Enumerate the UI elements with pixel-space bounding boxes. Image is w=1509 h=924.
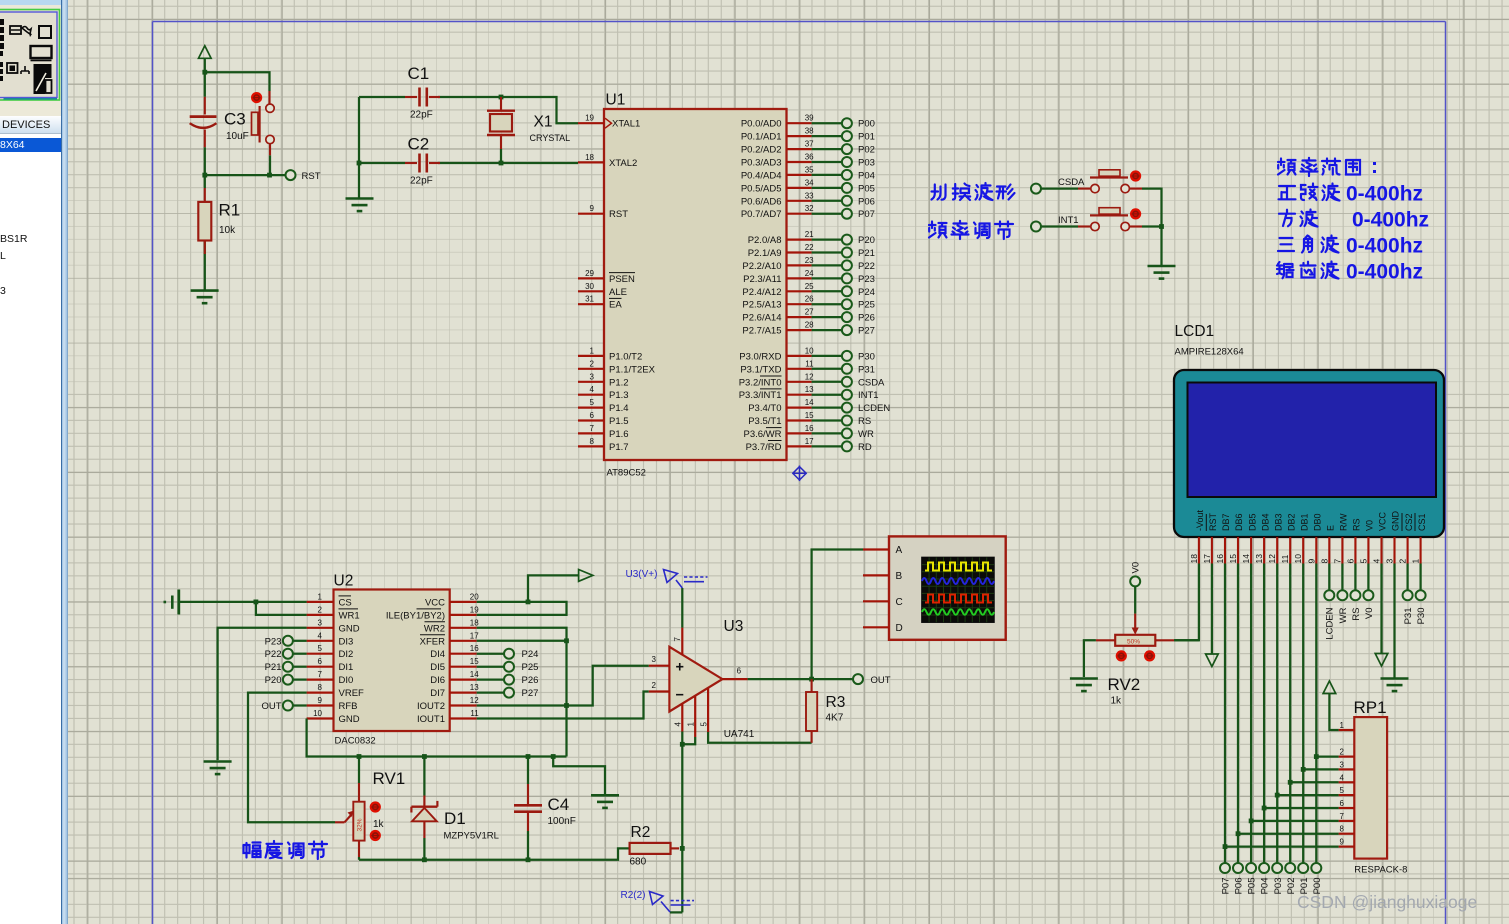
svg-text:8: 8 bbox=[590, 437, 595, 446]
U1 AT89C52 body bbox=[604, 109, 787, 460]
svg-text:28: 28 bbox=[805, 321, 814, 330]
RP1 pin stubs bbox=[1339, 730, 1355, 847]
svg-text:6: 6 bbox=[590, 411, 595, 420]
svg-text:17: 17 bbox=[1202, 554, 1212, 564]
capacitor C3 bbox=[190, 97, 217, 147]
wire RV2 right joins LCD pin18 bbox=[1174, 639, 1199, 641]
svg-text:1: 1 bbox=[1340, 721, 1345, 730]
svg-text:9: 9 bbox=[318, 696, 323, 705]
svg-text:P2.4/A12: P2.4/A12 bbox=[742, 287, 781, 298]
svg-text:DB6: DB6 bbox=[1234, 513, 1244, 531]
potentiometer RV2 bbox=[1096, 614, 1174, 641]
svg-text:P3.0/RXD: P3.0/RXD bbox=[739, 351, 781, 362]
svg-text:GND: GND bbox=[1391, 511, 1401, 532]
svg-text:39: 39 bbox=[805, 114, 814, 123]
svg-text:RESPACK-8: RESPACK-8 bbox=[1354, 865, 1407, 876]
svg-text:12: 12 bbox=[805, 372, 814, 381]
svg-text:100nF: 100nF bbox=[548, 816, 576, 827]
svg-text:24: 24 bbox=[805, 269, 814, 278]
svg-text:DB2: DB2 bbox=[1286, 513, 1296, 531]
U1 right wires to terminals bbox=[812, 123, 842, 446]
svg-text:2: 2 bbox=[1340, 748, 1345, 757]
svg-text:14: 14 bbox=[470, 670, 479, 679]
svg-text:E: E bbox=[1326, 525, 1336, 531]
svg-text:30: 30 bbox=[585, 282, 594, 291]
svg-text:P3.6/WR: P3.6/WR bbox=[743, 429, 781, 440]
svg-text:P23: P23 bbox=[265, 636, 282, 647]
svg-text:C: C bbox=[896, 597, 903, 608]
waveform blue sine bbox=[922, 578, 994, 584]
svg-text:6: 6 bbox=[1340, 799, 1345, 808]
svg-text:17: 17 bbox=[805, 437, 814, 446]
wire RV2 to ground bbox=[1084, 640, 1096, 677]
svg-text:RST: RST bbox=[1208, 512, 1218, 531]
svg-text:P3.5/T1: P3.5/T1 bbox=[748, 416, 781, 427]
output wire to OUT bbox=[748, 678, 853, 680]
svg-text:8: 8 bbox=[318, 683, 323, 692]
svg-text:P01: P01 bbox=[858, 132, 875, 143]
svg-text:15: 15 bbox=[1228, 554, 1238, 564]
svg-text:D: D bbox=[896, 623, 903, 634]
svg-text:P26: P26 bbox=[858, 313, 875, 324]
svg-text:1: 1 bbox=[1411, 559, 1421, 564]
svg-text:4: 4 bbox=[318, 631, 323, 640]
svg-text:U3(V+): U3(V+) bbox=[626, 569, 658, 580]
power symbol (battery bar) bbox=[164, 590, 179, 615]
svg-text:P27: P27 bbox=[858, 326, 875, 337]
svg-text:DB1: DB1 bbox=[1299, 513, 1309, 531]
origin marker bbox=[792, 466, 806, 482]
svg-text:P0.2/AD2: P0.2/AD2 bbox=[741, 145, 782, 156]
svg-text:P2.1/A9: P2.1/A9 bbox=[748, 248, 782, 259]
svg-text:22pF: 22pF bbox=[410, 176, 433, 187]
svg-text:R3: R3 bbox=[826, 694, 846, 711]
svg-text:16: 16 bbox=[805, 424, 814, 433]
svg-text:P20: P20 bbox=[265, 675, 282, 686]
svg-text:P04: P04 bbox=[858, 170, 875, 181]
svg-text:P31: P31 bbox=[858, 364, 875, 375]
svg-text:VCC: VCC bbox=[425, 597, 445, 608]
svg-text:DI1: DI1 bbox=[339, 662, 354, 673]
wire VREF to RV1 wiper bbox=[248, 693, 335, 823]
svg-text:V0: V0 bbox=[1365, 520, 1375, 531]
svg-text:WR: WR bbox=[1338, 607, 1349, 623]
svg-text:DI6: DI6 bbox=[430, 675, 445, 686]
svg-text:7: 7 bbox=[1340, 812, 1345, 821]
blue label switch-waveform bbox=[932, 183, 1015, 200]
svg-text:P2.7/A15: P2.7/A15 bbox=[742, 326, 781, 337]
svg-text:C2: C2 bbox=[408, 135, 430, 154]
svg-text:0-400hz: 0-400hz bbox=[1352, 209, 1429, 232]
svg-text:27: 27 bbox=[805, 308, 814, 317]
svg-text:DI2: DI2 bbox=[339, 649, 354, 660]
svg-text:15: 15 bbox=[805, 411, 814, 420]
ground (reset) bbox=[191, 291, 219, 304]
wire WR2 pin18 bbox=[477, 628, 567, 641]
svg-text:P04: P04 bbox=[1260, 878, 1271, 895]
U1 XTAL1 clock chevron bbox=[605, 118, 612, 128]
node junctions bbox=[202, 70, 207, 75]
svg-text:12: 12 bbox=[470, 696, 479, 705]
svg-text:3: 3 bbox=[1340, 760, 1345, 769]
svg-text:P22: P22 bbox=[265, 649, 282, 660]
svg-text:INT1: INT1 bbox=[858, 390, 879, 401]
terminals LCDEN WR RS V0 P31 P30 bbox=[1324, 590, 1334, 600]
svg-text:32: 32 bbox=[805, 204, 814, 213]
svg-text:13: 13 bbox=[1254, 554, 1264, 564]
svg-text:GND: GND bbox=[339, 714, 360, 725]
svg-text:50%: 50% bbox=[1127, 638, 1140, 645]
ground (U2 pin3) bbox=[204, 762, 232, 775]
svg-text:DB5: DB5 bbox=[1247, 513, 1257, 531]
svg-text:36: 36 bbox=[805, 153, 814, 162]
svg-text:XFER: XFER bbox=[420, 636, 445, 647]
svg-text:DI0: DI0 bbox=[339, 675, 354, 686]
svg-text:13: 13 bbox=[805, 385, 814, 394]
svg-text:10: 10 bbox=[313, 709, 322, 718]
svg-text:V0: V0 bbox=[1364, 608, 1375, 620]
svg-text:U3: U3 bbox=[724, 618, 744, 635]
U1 left pin stubs bbox=[578, 123, 604, 446]
wire buttons to ground bbox=[1042, 189, 1162, 266]
wire opamp out to scope A bbox=[812, 550, 863, 680]
svg-text:WR2: WR2 bbox=[424, 623, 445, 634]
svg-text:P3.3/INT1: P3.3/INT1 bbox=[739, 390, 782, 401]
probe U3(V+) wire bbox=[681, 588, 683, 628]
svg-text:12: 12 bbox=[1267, 554, 1277, 564]
svg-text:LCDEN: LCDEN bbox=[1325, 607, 1336, 639]
terminal RST bbox=[286, 170, 296, 180]
svg-text:RP1: RP1 bbox=[1354, 698, 1387, 717]
svg-text:9: 9 bbox=[1306, 559, 1316, 564]
svg-text:DI5: DI5 bbox=[430, 662, 445, 673]
crystal circuit wires bbox=[359, 97, 578, 198]
opamp vertical net pins 4/1/5 bbox=[670, 732, 812, 913]
svg-text:P1.6: P1.6 bbox=[609, 429, 629, 440]
svg-text:R2(2): R2(2) bbox=[621, 890, 646, 901]
waveform green sine bbox=[922, 609, 994, 615]
zener diode D1 bbox=[423, 757, 425, 860]
svg-text:35: 35 bbox=[805, 165, 814, 174]
ground (crystal) bbox=[346, 199, 374, 212]
crystal X1 bbox=[487, 97, 515, 149]
svg-text:C3: C3 bbox=[224, 110, 246, 129]
svg-text:26: 26 bbox=[805, 295, 814, 304]
U2 right pin names bbox=[386, 597, 445, 725]
junction dots data bus bbox=[1314, 754, 1319, 759]
capacitor C1 bbox=[405, 88, 440, 107]
svg-text:WR: WR bbox=[858, 429, 874, 440]
svg-text:P27: P27 bbox=[522, 688, 539, 699]
svg-text:VCC: VCC bbox=[1378, 511, 1388, 531]
terminal CSDA button net bbox=[1031, 184, 1041, 194]
svg-text:15: 15 bbox=[470, 657, 479, 666]
svg-text:9: 9 bbox=[1340, 838, 1345, 847]
wire GND pin3 bbox=[218, 628, 307, 760]
svg-text:33: 33 bbox=[805, 191, 814, 200]
capacitor C2 bbox=[405, 154, 440, 173]
svg-text:RV1: RV1 bbox=[373, 769, 406, 788]
svg-text:11: 11 bbox=[1280, 554, 1290, 563]
svg-text:C1: C1 bbox=[408, 64, 430, 83]
svg-text:P0.5/AD5: P0.5/AD5 bbox=[741, 183, 782, 194]
svg-text:10: 10 bbox=[805, 346, 814, 355]
svg-text:4: 4 bbox=[590, 385, 595, 394]
svg-text:10: 10 bbox=[1293, 554, 1303, 564]
svg-text:14: 14 bbox=[805, 398, 814, 407]
svg-text:14: 14 bbox=[1241, 554, 1251, 564]
svg-text:P1.5: P1.5 bbox=[609, 416, 629, 427]
svg-text:38: 38 bbox=[805, 127, 814, 136]
svg-text:25: 25 bbox=[805, 282, 814, 291]
svg-text:VREF: VREF bbox=[339, 688, 365, 699]
svg-text:P24: P24 bbox=[858, 287, 875, 298]
svg-text:P0.4/AD4: P0.4/AD4 bbox=[741, 170, 782, 181]
svg-text:9: 9 bbox=[590, 204, 595, 213]
svg-text:7: 7 bbox=[590, 424, 595, 433]
svg-text:-Vout: -Vout bbox=[1195, 509, 1205, 531]
svg-text:4: 4 bbox=[1372, 559, 1382, 564]
svg-text:0-400hz: 0-400hz bbox=[1346, 183, 1423, 206]
svg-text:P1.0/T2: P1.0/T2 bbox=[609, 351, 642, 362]
svg-text:P25: P25 bbox=[858, 300, 875, 311]
svg-text:22: 22 bbox=[805, 243, 814, 252]
ground (rail) bbox=[591, 795, 619, 808]
svg-text:DB0: DB0 bbox=[1313, 513, 1323, 531]
svg-text:RFB: RFB bbox=[339, 701, 358, 712]
svg-text:17: 17 bbox=[470, 631, 479, 640]
svg-text:6: 6 bbox=[737, 667, 742, 676]
LCD pin numbers bbox=[1189, 554, 1421, 564]
svg-text:CS2: CS2 bbox=[1404, 513, 1414, 531]
svg-text:WR1: WR1 bbox=[339, 610, 360, 621]
svg-text:P3.1/TXD: P3.1/TXD bbox=[740, 364, 781, 375]
svg-text:6: 6 bbox=[318, 657, 323, 666]
svg-text:ALE: ALE bbox=[609, 287, 627, 298]
svg-text:P22: P22 bbox=[858, 261, 875, 272]
svg-text:5: 5 bbox=[318, 644, 323, 653]
svg-text:D1: D1 bbox=[444, 809, 466, 828]
svg-text:1: 1 bbox=[590, 346, 595, 355]
power arrow down (VCC) bbox=[1375, 654, 1388, 667]
svg-text:P07: P07 bbox=[858, 209, 875, 220]
svg-text:P1.3: P1.3 bbox=[609, 390, 629, 401]
svg-text:DI7: DI7 bbox=[430, 688, 445, 699]
svg-text:XTAL1: XTAL1 bbox=[612, 119, 640, 130]
RP1 pin wires to LCD data bus bbox=[1225, 757, 1339, 847]
svg-text:P02: P02 bbox=[1286, 878, 1297, 895]
svg-text:U2: U2 bbox=[334, 573, 354, 590]
svg-text:5: 5 bbox=[590, 398, 595, 407]
svg-text:OUT: OUT bbox=[871, 675, 891, 686]
svg-text:P06: P06 bbox=[1234, 878, 1245, 895]
svg-text:P20: P20 bbox=[858, 235, 875, 246]
svg-text:RS: RS bbox=[858, 416, 871, 427]
svg-text:CS: CS bbox=[339, 597, 352, 608]
svg-text:AMPIRE128X64: AMPIRE128X64 bbox=[1175, 347, 1244, 358]
ground (buttons) bbox=[1148, 266, 1176, 279]
U2 right pin stubs bbox=[450, 602, 477, 719]
svg-text:PSEN: PSEN bbox=[609, 274, 635, 285]
svg-text:18: 18 bbox=[470, 618, 479, 627]
overview window bbox=[0, 10, 60, 101]
svg-text:P0.3/AD3: P0.3/AD3 bbox=[741, 158, 782, 169]
svg-text:7: 7 bbox=[318, 670, 323, 679]
button (reset) bbox=[260, 91, 270, 155]
terminal INT1 button net bbox=[1031, 222, 1041, 232]
svg-text:0-400hz: 0-400hz bbox=[1346, 261, 1423, 284]
svg-text:XTAL2: XTAL2 bbox=[609, 158, 637, 169]
wire IOUT2 pin12 to opamp + bbox=[477, 666, 649, 706]
svg-text:P0.1/AD1: P0.1/AD1 bbox=[741, 132, 782, 143]
ground (LCD GND pin) bbox=[1381, 679, 1409, 692]
svg-text:P05: P05 bbox=[858, 183, 875, 194]
svg-text:LCD1: LCD1 bbox=[1175, 323, 1215, 340]
potentiometer RV1 bbox=[358, 757, 360, 860]
overview toolbar icons bbox=[0, 19, 52, 94]
svg-text:GND: GND bbox=[339, 623, 360, 634]
U1 right terminals P00-P07 P20-P27 P30-RD bbox=[842, 118, 852, 451]
LCD wires bbox=[1174, 564, 1421, 863]
svg-text:P24: P24 bbox=[522, 649, 539, 660]
svg-text:21: 21 bbox=[805, 230, 814, 239]
svg-text:3: 3 bbox=[590, 372, 595, 381]
svg-text:2: 2 bbox=[652, 681, 657, 690]
svg-text:4: 4 bbox=[1340, 773, 1345, 782]
U1 right pin numbers bbox=[805, 114, 814, 446]
svg-text:32%: 32% bbox=[357, 818, 364, 831]
svg-text:ILE(BY1/BY2): ILE(BY1/BY2) bbox=[386, 610, 445, 621]
svg-text:23: 23 bbox=[805, 256, 814, 265]
U1 right terminal labels bbox=[858, 119, 890, 453]
waveform red square bbox=[925, 595, 992, 603]
svg-text:P05: P05 bbox=[1247, 878, 1258, 895]
svg-text:EA: EA bbox=[609, 300, 622, 311]
svg-text:3: 3 bbox=[652, 655, 657, 664]
U2 left pin stubs bbox=[307, 602, 334, 719]
power arrow VCC (reset) bbox=[199, 46, 212, 59]
wire CS/WR1 tie bbox=[180, 602, 307, 615]
svg-text:U1: U1 bbox=[606, 92, 626, 109]
svg-text:P02: P02 bbox=[858, 145, 875, 156]
svg-text:P3.7/RD: P3.7/RD bbox=[746, 442, 782, 453]
blue label amplitude-adjust bbox=[244, 841, 328, 859]
svg-text:CSDA: CSDA bbox=[858, 377, 885, 388]
U1 right internal names bbox=[739, 119, 782, 453]
svg-text:B: B bbox=[896, 571, 903, 582]
svg-text:P2.2/A10: P2.2/A10 bbox=[742, 261, 781, 272]
svg-text:R/W: R/W bbox=[1339, 513, 1349, 531]
svg-text:29: 29 bbox=[585, 269, 594, 278]
svg-text:IOUT2: IOUT2 bbox=[417, 701, 445, 712]
svg-text:CSDA: CSDA bbox=[1058, 177, 1085, 188]
blue freq range text bbox=[1277, 158, 1429, 284]
svg-text:DI3: DI3 bbox=[339, 636, 354, 647]
U1 left pin numbers bbox=[585, 114, 594, 446]
blue label freq-adjust bbox=[929, 221, 1013, 239]
svg-text:11: 11 bbox=[805, 359, 814, 368]
wire VCC pin20 to power arrow bbox=[477, 575, 579, 602]
svg-text:16: 16 bbox=[1215, 554, 1225, 564]
svg-text:RST: RST bbox=[609, 209, 628, 220]
wire GND pin10 to rail bbox=[307, 719, 567, 757]
resistor R3 bbox=[811, 679, 813, 692]
svg-text:4: 4 bbox=[674, 722, 683, 727]
svg-text:1k: 1k bbox=[1111, 696, 1123, 707]
svg-text:7: 7 bbox=[1332, 559, 1342, 564]
svg-text:RD: RD bbox=[858, 442, 872, 453]
svg-text:P1.7: P1.7 bbox=[609, 442, 629, 453]
U2 pin numbers bbox=[313, 592, 322, 718]
power arrow up (RP1) bbox=[1323, 681, 1336, 694]
svg-text:P0.0/AD0: P0.0/AD0 bbox=[741, 119, 782, 130]
svg-text:DB7: DB7 bbox=[1221, 513, 1231, 531]
svg-text:+: + bbox=[676, 660, 684, 676]
svg-text:34: 34 bbox=[805, 178, 814, 187]
svg-text:P21: P21 bbox=[265, 662, 282, 673]
terminal OUT (RFB) bbox=[293, 704, 307, 706]
svg-text:P2.3/A11: P2.3/A11 bbox=[743, 274, 781, 285]
svg-text:A: A bbox=[896, 545, 903, 556]
svg-text:P1.1/T2EX: P1.1/T2EX bbox=[609, 364, 656, 375]
svg-text:P25: P25 bbox=[522, 662, 539, 673]
svg-text:MZPY5V1RL: MZPY5V1RL bbox=[444, 831, 499, 842]
U1 left pin names bbox=[609, 119, 656, 453]
svg-text:5: 5 bbox=[699, 722, 708, 727]
svg-text:C4: C4 bbox=[548, 795, 570, 814]
svg-text:2: 2 bbox=[590, 359, 595, 368]
svg-text:P2.0/A8: P2.0/A8 bbox=[748, 235, 782, 246]
svg-text:1: 1 bbox=[686, 722, 695, 727]
svg-text:18: 18 bbox=[585, 153, 594, 162]
svg-text:20: 20 bbox=[470, 592, 479, 601]
svg-text:7: 7 bbox=[673, 637, 682, 642]
svg-text:P06: P06 bbox=[858, 196, 875, 207]
LCD pin stubs bbox=[1199, 537, 1421, 564]
wire IOUT1 pin11 to opamp - bbox=[477, 692, 649, 719]
svg-text:RV2: RV2 bbox=[1108, 675, 1141, 694]
svg-text:18: 18 bbox=[1189, 554, 1199, 564]
svg-text:2: 2 bbox=[1398, 559, 1408, 564]
wire V0 terminal to RV2 wiper bbox=[1134, 587, 1136, 614]
svg-text:P0.7/AD7: P0.7/AD7 bbox=[741, 209, 782, 220]
terminals P07-P00 bbox=[1220, 863, 1230, 873]
svg-text:AT89C52: AT89C52 bbox=[607, 468, 646, 479]
svg-text:LCDEN: LCDEN bbox=[858, 403, 890, 414]
terminals P23 P22 P21 P20 bbox=[293, 641, 307, 680]
svg-text:5: 5 bbox=[1340, 786, 1345, 795]
svg-text:OUT: OUT bbox=[261, 701, 281, 712]
svg-text:8: 8 bbox=[1340, 825, 1345, 834]
svg-text:P2.5/A13: P2.5/A13 bbox=[742, 300, 781, 311]
svg-text:P0.6/AD6: P0.6/AD6 bbox=[741, 196, 782, 207]
waveform yellow square bbox=[925, 563, 992, 571]
svg-text:P07: P07 bbox=[1221, 878, 1232, 895]
svg-text:1k: 1k bbox=[373, 819, 385, 830]
svg-text:680: 680 bbox=[630, 857, 647, 868]
svg-text:0-400hz: 0-400hz bbox=[1346, 235, 1423, 258]
svg-text:16: 16 bbox=[470, 644, 479, 653]
svg-text:DB3: DB3 bbox=[1273, 513, 1283, 531]
svg-text:X1: X1 bbox=[534, 114, 553, 131]
terminals P24-P27 bbox=[477, 654, 504, 693]
svg-text:RS: RS bbox=[1352, 518, 1362, 531]
svg-text:V0: V0 bbox=[1131, 562, 1142, 574]
svg-text:11: 11 bbox=[470, 709, 479, 718]
LCD pin labels bbox=[1195, 509, 1427, 531]
svg-text:RST: RST bbox=[302, 171, 321, 182]
resistor R2 bbox=[630, 843, 671, 854]
